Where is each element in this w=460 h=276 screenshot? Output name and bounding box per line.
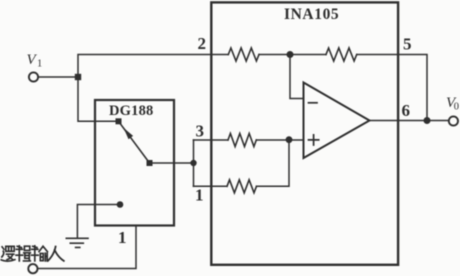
ground symbol (66, 238, 88, 247)
node C junction (190, 160, 196, 166)
svg-text:V: V (27, 52, 38, 68)
label logic input (Chinese: luo ji shu ru) (1, 246, 64, 261)
resistor R3 (228, 134, 256, 147)
switch ground contact (117, 201, 124, 208)
wire R3 to node D and op-amp plus (256, 139, 303, 141)
resistor R2 (326, 48, 357, 61)
resistor R1 (228, 48, 259, 61)
svg-text:1: 1 (195, 186, 204, 205)
wire R2 out pin 5 down to node F (357, 55, 427, 121)
svg-text:1: 1 (118, 228, 127, 247)
node F feedback junction (424, 117, 431, 124)
wire op-amp output pin 6 (370, 120, 449, 122)
wire bus at node C (193, 140, 195, 186)
wire switch pole to node C (150, 162, 194, 164)
wire node A down to switch contact (78, 77, 116, 121)
IC box U2 INA105 (211, 2, 398, 264)
switch arrowhead (124, 128, 134, 140)
wire node B to op-amp inverting input (290, 55, 304, 99)
switch arm (119, 121, 150, 163)
op-amp minus sign (309, 102, 318, 104)
IC box U1 DG188 (95, 100, 174, 226)
wire R4 up to node D (257, 142, 290, 187)
terminal V0 (449, 116, 458, 125)
svg-text:0: 0 (454, 102, 459, 113)
node A junction (75, 74, 81, 80)
op-amp plus sign (309, 135, 319, 145)
svg-text:DG188: DG188 (109, 103, 154, 119)
wire pin 3 (194, 139, 229, 141)
wire V1 to node A (38, 76, 78, 78)
svg-text:3: 3 (196, 122, 205, 141)
op-amp U2A (304, 83, 370, 159)
wire node B to R2 (290, 54, 326, 56)
wire ground contact to ground (77, 205, 120, 238)
terminal logic input (28, 264, 37, 273)
svg-text:6: 6 (402, 101, 411, 120)
svg-text:1: 1 (37, 59, 42, 70)
terminal V1 (29, 72, 38, 81)
wire R1 to node B (259, 54, 290, 56)
svg-text:2: 2 (198, 34, 207, 53)
switch pole (147, 160, 153, 166)
node B junction (287, 51, 294, 58)
wire DG188 pin1 to logic input terminal (38, 226, 136, 269)
svg-text:INA105: INA105 (284, 6, 339, 23)
switch contact S1 top (116, 118, 122, 124)
wire pin 1 (194, 185, 228, 187)
svg-text:5: 5 (403, 35, 412, 54)
node D junction (286, 136, 293, 143)
resistor R4 (227, 180, 256, 193)
wire node A up to pin 2 (78, 55, 228, 78)
